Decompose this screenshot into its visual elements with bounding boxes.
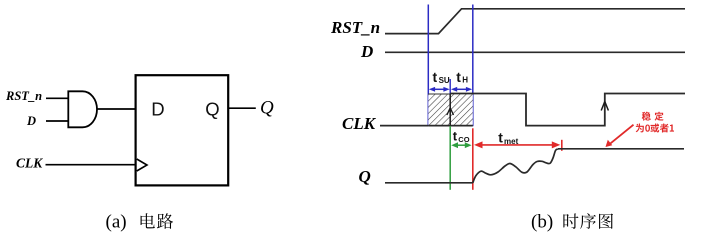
- svg-text:D: D: [151, 99, 164, 120]
- svg-text:Q: Q: [359, 167, 371, 186]
- waveform CLK hatch bottom segment: [428, 125, 473, 127]
- red annotation text 稳定: [642, 112, 664, 121]
- red Q-settle projection line: [472, 128, 474, 190]
- label tSU: [433, 69, 450, 85]
- wire Q output: [228, 107, 256, 109]
- svg-text:t: t: [433, 69, 438, 85]
- blue mid divider at clock edge: [449, 79, 451, 94]
- svg-text:CLK: CLK: [16, 156, 43, 171]
- svg-text:t: t: [498, 130, 503, 146]
- arrow tCO (green double arrow): [451, 142, 471, 148]
- blue hold boundary line: [472, 5, 474, 127]
- green clock-edge projection line: [449, 126, 451, 190]
- clock triangle (edge-trigger marker): [137, 159, 147, 171]
- svg-text:D: D: [360, 42, 373, 61]
- wire CLK: [46, 164, 136, 166]
- svg-text:Q: Q: [260, 98, 274, 119]
- red annotation text 为0或者1: [636, 124, 674, 133]
- arrow tH (blue double arrow): [451, 87, 472, 92]
- waveform Q metastable squiggle: [473, 149, 558, 183]
- red end tick of tmet: [561, 140, 563, 151]
- blue setup boundary line: [427, 5, 429, 127]
- svg-text:D: D: [26, 114, 36, 128]
- svg-text:H: H: [462, 76, 468, 85]
- and-gate U1: [68, 91, 97, 127]
- hatched clock-uncertainty region: [428, 94, 473, 126]
- wire RST_n input: [46, 97, 69, 99]
- wire AND output to flip-flop D: [97, 108, 136, 110]
- waveform Q settled high segment: [558, 148, 684, 150]
- caption text 电路: [141, 213, 174, 229]
- svg-text:(b): (b): [531, 212, 553, 233]
- waveform RST_n: [385, 9, 685, 34]
- svg-text:SU: SU: [439, 76, 450, 85]
- svg-text:t: t: [456, 69, 461, 85]
- flip-flop U2 box: [136, 75, 229, 185]
- up arrowhead on second CLK rising edge: [601, 102, 608, 111]
- svg-text:RST_n: RST_n: [330, 18, 380, 37]
- waveform Q low segment: [385, 182, 473, 184]
- svg-text:t: t: [453, 129, 458, 144]
- caption text 时序图: [563, 213, 613, 229]
- waveform CLK low segment before edge: [380, 125, 428, 127]
- svg-text:(a): (a): [106, 212, 127, 233]
- waveform D: [385, 51, 685, 53]
- arrow tSU (blue double arrow): [429, 87, 450, 92]
- CLK edge line with up arrowhead: [447, 94, 454, 126]
- svg-text:CO: CO: [458, 135, 469, 144]
- waveform CLK pulse train: [450, 94, 685, 126]
- wire D input: [46, 120, 69, 122]
- arrow tmet (red double arrow): [474, 141, 560, 148]
- label tH: [456, 69, 468, 85]
- label tCO: [453, 129, 470, 145]
- label tmet: [498, 130, 518, 147]
- svg-text:Q: Q: [205, 99, 219, 120]
- red callout arrow to Q line: [606, 125, 634, 147]
- svg-text:RST_n: RST_n: [5, 89, 42, 103]
- svg-text:CLK: CLK: [342, 114, 377, 133]
